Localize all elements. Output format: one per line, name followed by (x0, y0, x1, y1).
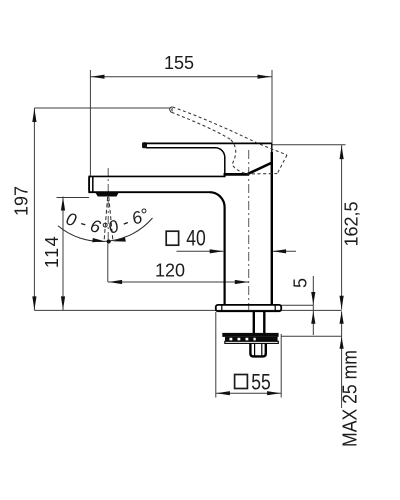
washer serrated band (225, 337, 278, 341)
body top surface thick (224, 173, 249, 176)
body left edge upper stub (224, 173, 226, 177)
dim 155 extension line right (271, 70, 273, 144)
spout end cap (89, 177, 90, 192)
spout top edge (88, 175, 224, 177)
dim square55 symbol (235, 375, 248, 389)
dim 120 arrow right (235, 280, 249, 284)
dim square55 right extension line (280, 334, 282, 398)
handle raised dashed top edge (173, 107, 288, 155)
dim square55 left extension line (215, 312, 217, 398)
lever handle bottom edge and curve (146, 148, 225, 174)
dim 155 arrow right (258, 75, 272, 79)
washer top band (222, 333, 278, 337)
counter bottom line (281, 335, 341, 337)
dim 114 arrow top (61, 197, 65, 211)
spout end cap inner line (92, 177, 94, 192)
dim MAX 25 line (341, 311, 343, 408)
handle raised dashed right face (277, 155, 287, 174)
dim 114 extension line top (57, 197, 90, 199)
base flange (216, 305, 281, 311)
water stream dashed left (104, 197, 107, 240)
dim 162,5 extension line top (272, 144, 346, 146)
mounting nut inner left (254, 344, 256, 356)
body right edge (271, 143, 273, 153)
spout bottom edge (88, 191, 209, 193)
dim 5 line (312, 276, 314, 335)
svg-text:40: 40 (186, 227, 206, 252)
svg-text:55: 55 (251, 370, 271, 395)
dim 55 arrow left (216, 391, 230, 395)
dim 114 line (62, 197, 64, 311)
dim 55 line (216, 392, 281, 394)
angle arc arrow right (113, 237, 126, 241)
dim MAX 25 arrow at counter bottom (340, 337, 344, 349)
body centerline (248, 150, 250, 312)
handle raised dashed lower edge (172, 112, 231, 139)
dim 5 extension line flange top (281, 304, 313, 306)
body left edge (210, 192, 225, 305)
svg-text:155: 155 (164, 53, 194, 73)
svg-text:MAX 25 mm: MAX 25 mm (339, 350, 362, 447)
angle pivot dot (107, 240, 111, 244)
dim 162,5 arrow top (340, 146, 344, 160)
washer bottom plate (225, 341, 278, 343)
dim 155 line (90, 76, 271, 78)
dim 114 arrow bottom (61, 296, 65, 310)
dim 5 arrow up (311, 311, 315, 324)
dim 120 extension line (107, 244, 109, 283)
dim 40 leader right segment (273, 250, 297, 252)
body right edge lower thick (271, 152, 273, 305)
spout centerline (107, 168, 109, 243)
aerator (95, 192, 119, 196)
threaded shank right line (263, 311, 265, 333)
handle raised dashed bottom edge (246, 173, 277, 175)
washer serration gaps (230, 338, 256, 341)
counter top line (34, 309, 341, 311)
water stream dashed right (109, 197, 113, 240)
svg-text:197: 197 (12, 186, 32, 216)
dim 40 arrow onto left body edge (210, 249, 224, 253)
dim 162,5 line (341, 145, 343, 309)
dim 5 arrow down (311, 292, 315, 305)
dim 155 extension line left (89, 70, 91, 176)
svg-text:114: 114 (42, 235, 62, 268)
handle raised dashed hub arc (231, 140, 247, 174)
lever front diagonal (247, 163, 272, 175)
dim 40 leader left segment (177, 250, 224, 252)
svg-text:5: 5 (291, 278, 311, 288)
dim 55 arrow right (267, 391, 281, 395)
base flange inner left line (221, 305, 223, 311)
svg-text:162,5: 162,5 (342, 201, 362, 246)
mounting nut (250, 344, 265, 357)
lever handle cap (142, 142, 147, 148)
dim square40 symbol (166, 231, 178, 245)
dim 197 arrow bottom (32, 296, 36, 310)
dim 197 extension line top (34, 107, 170, 109)
dim 197 line (33, 108, 35, 310)
angle arc 0-6 (58, 218, 153, 241)
angle arc arrow left (92, 238, 105, 242)
dim 197 arrow top (32, 109, 36, 123)
dim MAX 25 arrow at counter top (340, 311, 344, 324)
base flange inner right line (274, 305, 276, 311)
dim 162,5 arrow bottom (340, 296, 344, 310)
dim 120 arrow left (109, 280, 123, 284)
handle raised dashed tip cap (170, 107, 173, 113)
dim 40 arrow onto right body edge (273, 249, 287, 253)
svg-text:120: 120 (155, 261, 185, 281)
dim 155 arrow left (91, 75, 105, 79)
lever handle top edge (144, 142, 272, 144)
mounting nut inner right (261, 344, 263, 356)
threaded shank left line (253, 311, 255, 333)
dim 120 line (108, 281, 249, 283)
